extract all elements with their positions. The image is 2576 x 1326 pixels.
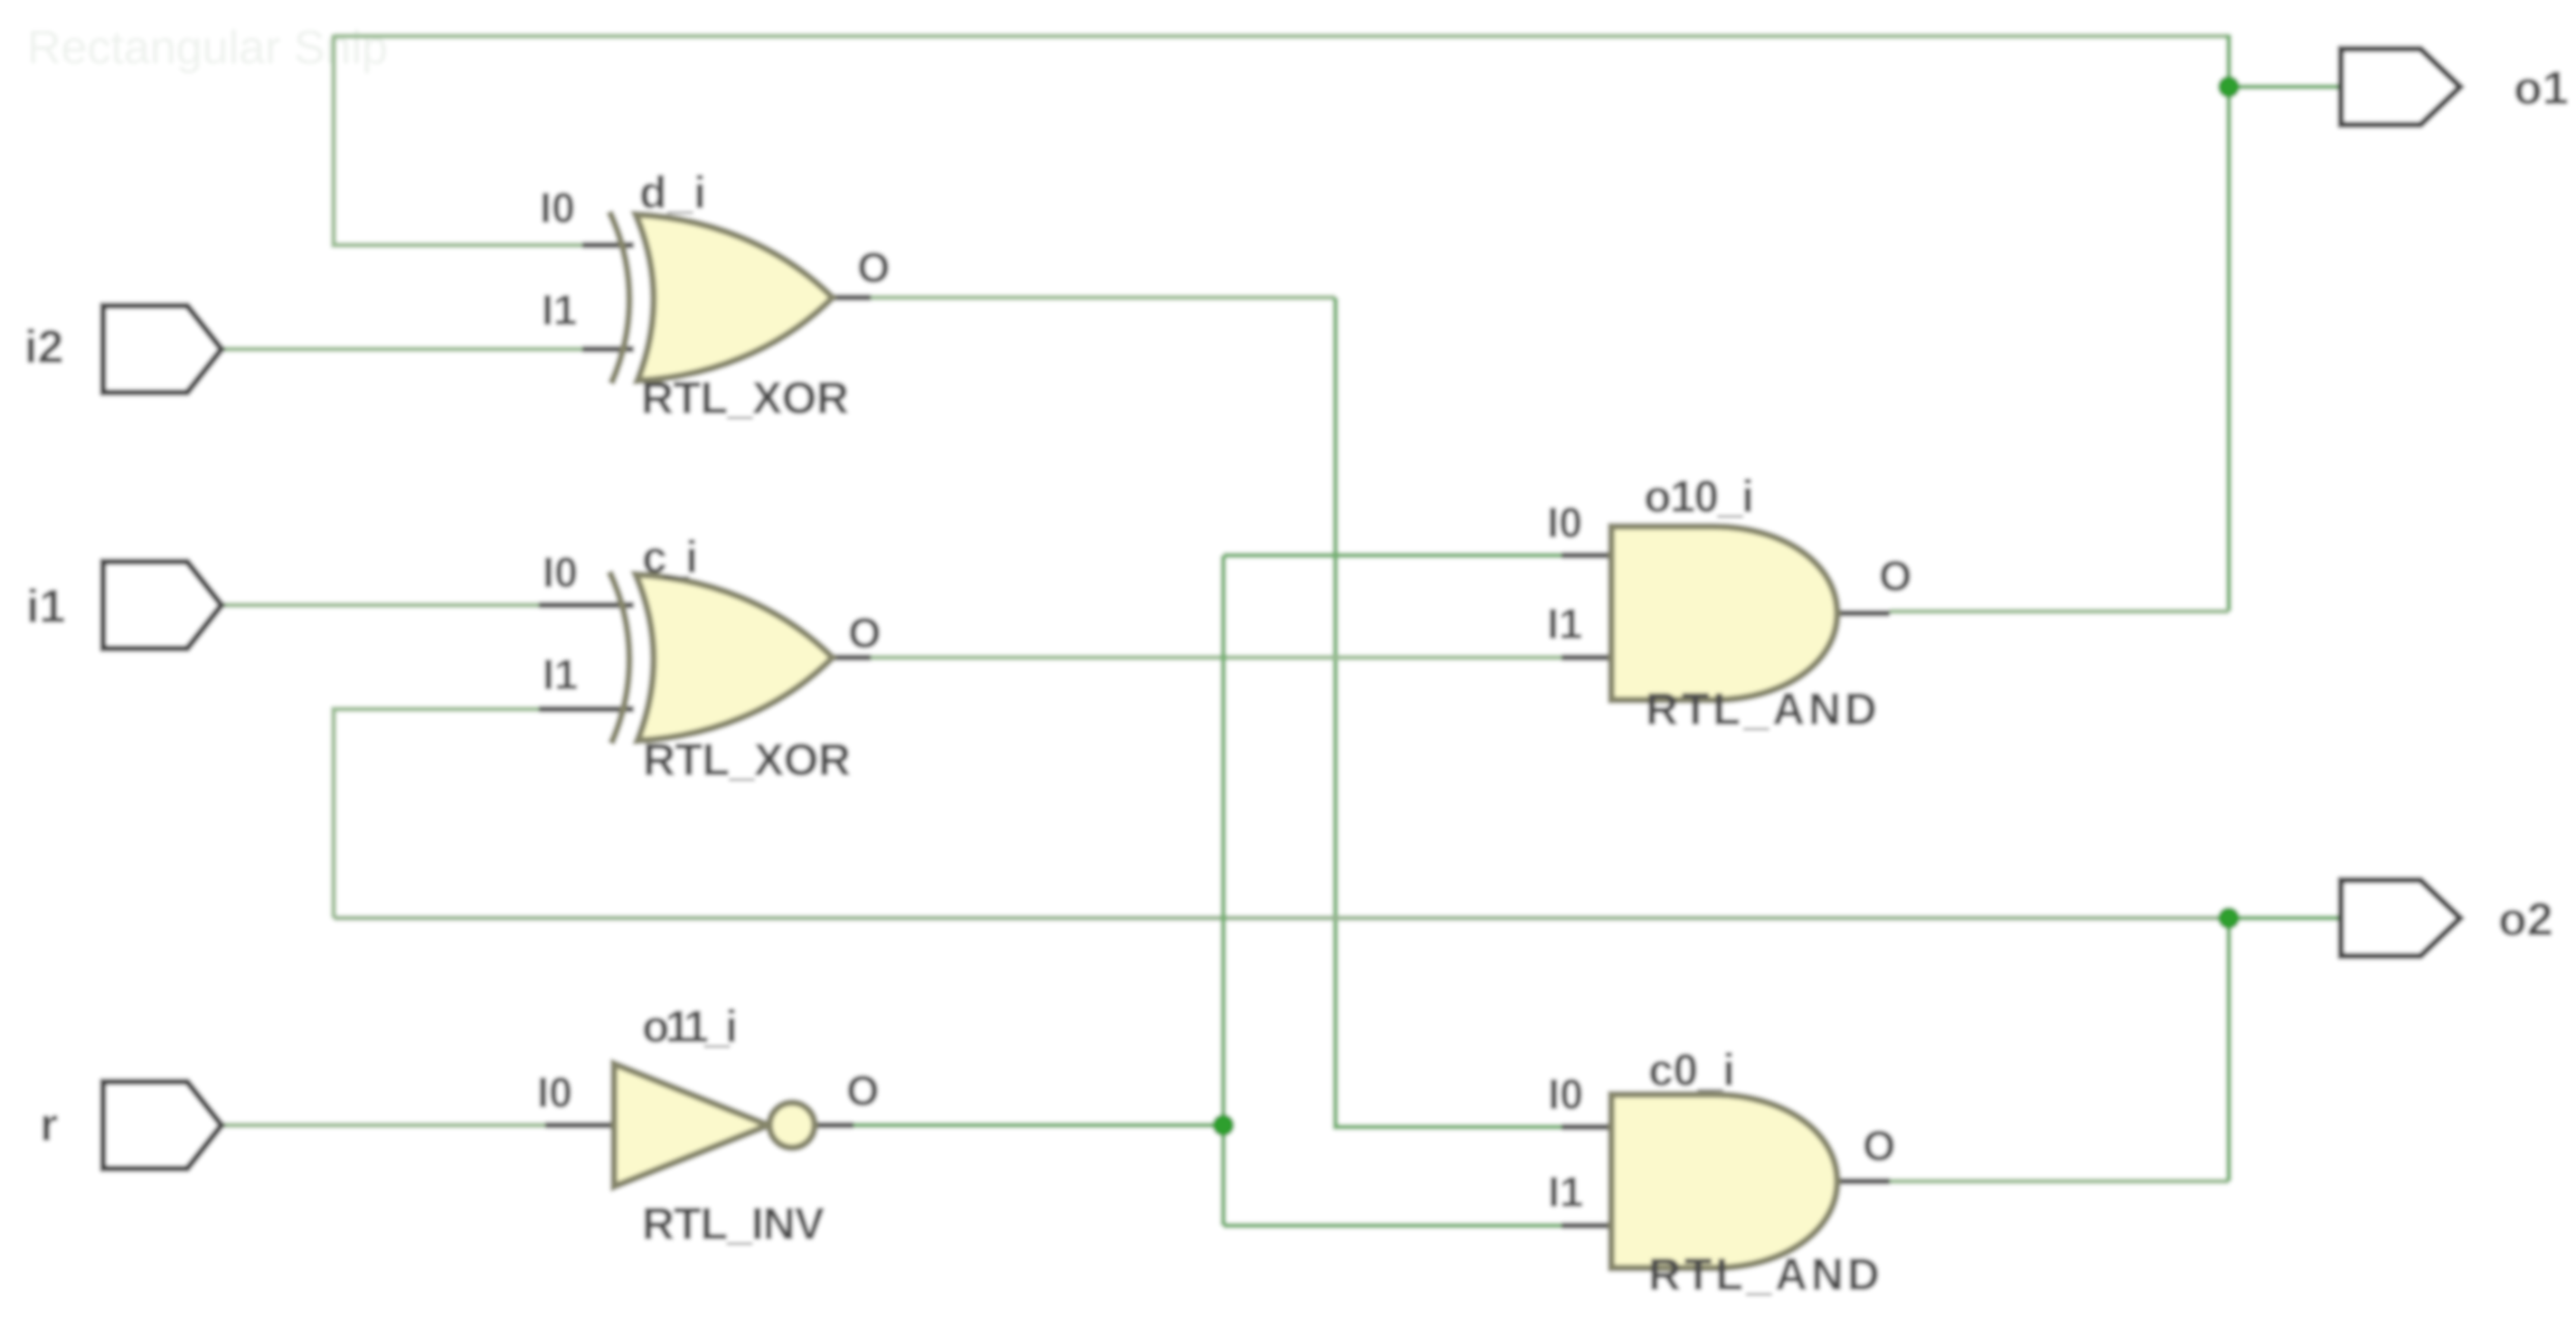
junction dot at inverter output (1213, 1114, 1234, 1136)
pin stub d_i O (833, 295, 871, 301)
svg-text:O: O (846, 1066, 880, 1114)
wire: vertical x=1477 down to c0_i I0 row (1335, 298, 1563, 1127)
svg-text:I0: I0 (1547, 498, 1582, 546)
pin stub d_i I0 (582, 242, 634, 249)
svg-text:c0_i: c0_i (1648, 1045, 1735, 1095)
wire net o10_i output to o1 and d_i I0 : top horizontal (334, 33, 2229, 39)
wire: left vertical x=369 down to d_i I0 row (334, 34, 584, 245)
wire: vertical x=2465 from o2 junction down to c0 output row (2226, 918, 2232, 1181)
wire: i1 input to c_i I0 (222, 602, 541, 608)
wire: c_i I1 from o2 net vertical x=369 (334, 709, 541, 918)
wire: c0_i output horizontal (1890, 1179, 2229, 1184)
svg-text:I0: I0 (537, 1068, 572, 1116)
pin stub d_i I1 (582, 346, 634, 353)
AND gate o10_i (1611, 526, 1837, 700)
svg-text:o11_i: o11_i (642, 1001, 738, 1052)
svg-text:c_i: c_i (642, 532, 698, 582)
junction dot at o2 branch (2218, 907, 2240, 929)
input port i1 (103, 562, 222, 649)
svg-text:O: O (848, 609, 882, 657)
pin stub o11_i O (815, 1122, 854, 1129)
svg-text:O: O (1879, 552, 1912, 600)
svg-text:r: r (40, 1099, 58, 1151)
output port o2 (2341, 880, 2460, 956)
junction dot at o1 branch (2218, 76, 2240, 98)
svg-text:RTL_INV: RTL_INV (642, 1198, 826, 1249)
wire: r input to inverter (222, 1122, 547, 1128)
pin stub c_i I1 (539, 706, 634, 713)
wire: branch junction to o2 port (2229, 915, 2341, 921)
pin stub c0_i O (1837, 1179, 1890, 1185)
wire: branch junction to o1 port (2229, 84, 2341, 90)
pin stub c0_i I1 (1562, 1223, 1613, 1229)
wire: o2 long horizontal (334, 915, 2229, 921)
inverter o11_i bubble (769, 1103, 815, 1148)
svg-text:RTL_XOR: RTL_XOR (643, 734, 851, 785)
wire: d_i output to vertical x=1477 (869, 295, 1335, 300)
svg-text:I0: I0 (1548, 1070, 1583, 1118)
svg-text:o1: o1 (2514, 62, 2569, 115)
svg-text:o2: o2 (2498, 894, 2553, 946)
svg-text:d_i: d_i (639, 167, 706, 218)
XOR gate d_i (609, 212, 833, 384)
input port r (103, 1082, 222, 1169)
pin stub c0_i I0 (1562, 1124, 1613, 1131)
svg-text:i2: i2 (24, 321, 63, 374)
svg-text:I1: I1 (1548, 1168, 1583, 1216)
pin stub o10_i I1 (1562, 655, 1613, 661)
wire: c_i output to o10_i I1 (869, 655, 1563, 660)
pin stub o10_i O (1837, 611, 1890, 617)
wire: o10_i I0 horizontal (1223, 553, 1563, 558)
svg-text:O: O (1863, 1122, 1896, 1170)
XOR gate c_i (609, 572, 833, 744)
svg-text:I1: I1 (542, 286, 577, 334)
pin stub c_i O (833, 655, 871, 661)
inverter o11_i triangle (614, 1064, 769, 1187)
wire: vertical x=1353 from o10 I0 row to c0 I1 row (1221, 555, 1226, 1226)
svg-text:I0: I0 (543, 548, 578, 596)
wire: right vertical x=2465 from top to o10 output row (2226, 34, 2232, 611)
svg-text:O: O (857, 243, 891, 291)
svg-text:o10_i: o10_i (1644, 471, 1754, 522)
svg-text:I1: I1 (1547, 600, 1582, 648)
output port o1 (2341, 49, 2460, 125)
pin stub o10_i I0 (1562, 553, 1613, 559)
AND gate c0_i (1611, 1094, 1837, 1268)
svg-text:RTL_XOR: RTL_XOR (641, 373, 849, 423)
svg-text:I1: I1 (543, 650, 578, 698)
svg-text:I0: I0 (540, 184, 575, 232)
pin stub o11_i I0 (545, 1122, 616, 1129)
wire: o10 output horizontal (1890, 609, 2229, 614)
svg-text:i1: i1 (26, 581, 65, 633)
wire: i2 input to d_i I1 (222, 346, 584, 352)
input port i2 (103, 306, 222, 393)
wire: inverter output to junction x=1353 (852, 1122, 1223, 1128)
pin stub c_i I0 (539, 602, 634, 609)
wire: c0_i I1 horizontal (1223, 1223, 1563, 1228)
